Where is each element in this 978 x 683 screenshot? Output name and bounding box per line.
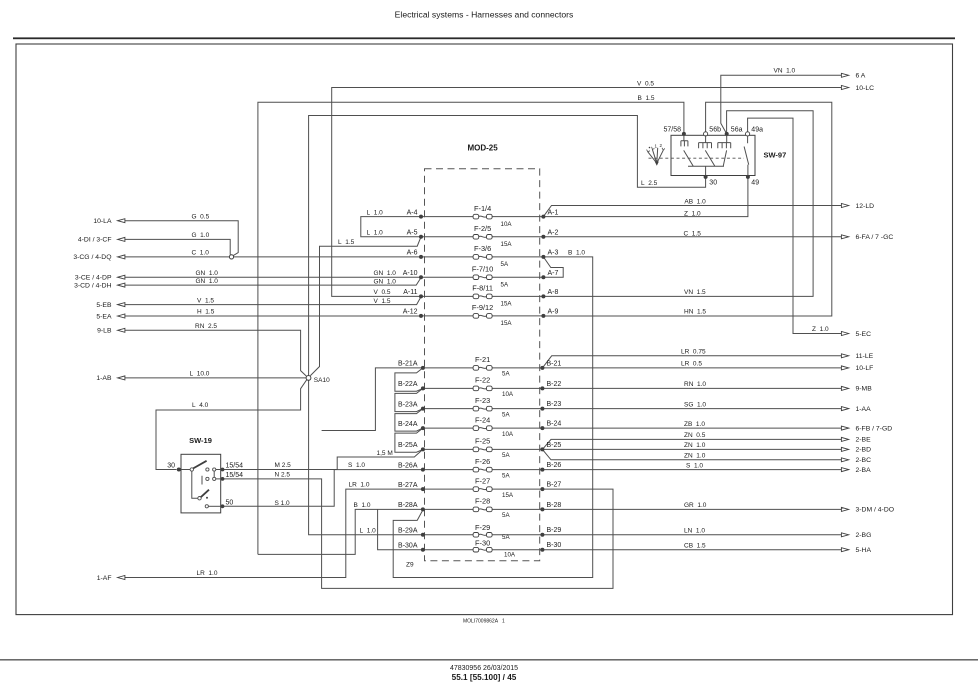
svg-text:B-30A: B-30A — [398, 542, 418, 549]
svg-text:5A: 5A — [502, 472, 510, 479]
wire GN 1.0 (3-CD/4-DH to A-10) — [125, 278, 421, 286]
svg-text:12-LD: 12-LD — [856, 203, 875, 210]
connector 9-LB — [97, 328, 125, 335]
wire row B-21A/B-21 — [423, 367, 543, 369]
node B-26 — [540, 468, 544, 472]
connector 12-LD — [841, 203, 874, 210]
fuse F-2/5 — [473, 224, 512, 248]
svg-text:LR 1.0: LR 1.0 — [349, 481, 370, 488]
node B-26A — [421, 468, 425, 472]
svg-text:56a: 56a — [731, 126, 743, 133]
svg-text:A-2: A-2 — [548, 230, 559, 237]
SW-97 terminal 56a — [725, 126, 743, 136]
svg-text:2-BD: 2-BD — [856, 447, 872, 454]
svg-text:S 1.0: S 1.0 — [348, 462, 365, 469]
svg-text:15A: 15A — [501, 301, 513, 308]
svg-text:SG 1.0: SG 1.0 — [684, 401, 706, 408]
node A-5 — [419, 235, 423, 239]
svg-text:B-23: B-23 — [547, 401, 562, 408]
svg-text:GN 1.0: GN 1.0 — [374, 270, 397, 277]
svg-text:1-AA: 1-AA — [856, 406, 872, 413]
svg-text:1-AB: 1-AB — [96, 375, 112, 382]
footer rule — [0, 659, 978, 660]
wire HN 1.5 (A-9 to SW-97 term 56b) — [543, 102, 831, 316]
connector 3-CG / 4-DQ — [73, 254, 125, 261]
svg-text:LN 1.0: LN 1.0 — [684, 528, 705, 535]
connector 2-BA — [841, 467, 871, 474]
wire row A-5/A-2 — [421, 236, 543, 238]
wire RN 1.0 (B-22 to 9-MB) — [542, 387, 841, 389]
connector 10-LC — [841, 85, 874, 92]
svg-text:6-FA / 7 -GC: 6-FA / 7 -GC — [856, 234, 894, 241]
svg-text:A-3: A-3 — [548, 250, 559, 257]
wire N 2.5 (SW-19 to B-27 bottom run) — [223, 479, 614, 589]
svg-text:A-7: A-7 — [548, 270, 559, 277]
SW-19 terminal 50 — [221, 500, 234, 509]
node B-30 — [540, 548, 544, 552]
svg-text:3-CE / 4-DP: 3-CE / 4-DP — [75, 275, 112, 282]
svg-text:VN 1.0: VN 1.0 — [774, 68, 796, 75]
svg-text:F-9/12: F-9/12 — [472, 303, 493, 312]
svg-text:1-AF: 1-AF — [97, 575, 112, 582]
connector 1-AA — [841, 406, 871, 413]
fuse F-22 — [473, 376, 514, 399]
svg-text:MOLI7009862A: MOLI7009862A — [463, 619, 499, 625]
connector 6 A — [841, 73, 865, 80]
SW-97 terminal 56b — [704, 126, 722, 136]
svg-text:B-30: B-30 — [547, 542, 562, 549]
wire row A-10/A-7 — [421, 276, 543, 278]
fuse F-23 — [473, 396, 510, 419]
svg-text:3-CG / 4-DQ: 3-CG / 4-DQ — [73, 254, 111, 261]
node A-1 — [541, 215, 545, 219]
svg-text:GN 1.0: GN 1.0 — [374, 278, 397, 285]
wire L 1.0 (A-5 loop to A-4) — [361, 217, 421, 237]
svg-text:RN 2.5: RN 2.5 — [195, 323, 217, 330]
svg-text:10A: 10A — [504, 551, 516, 558]
svg-text:L 4.0: L 4.0 — [192, 402, 209, 409]
svg-text:5A: 5A — [502, 534, 510, 541]
svg-text:GN 1.0: GN 1.0 — [196, 278, 219, 285]
fuse F-25 — [473, 437, 510, 460]
fuse F-27 — [473, 476, 514, 499]
svg-text:A-4: A-4 — [407, 209, 418, 216]
wire row B-25A/B-25 — [423, 448, 543, 450]
wire jumper A-3 to A-7 — [543, 257, 563, 277]
svg-text:B-23A: B-23A — [398, 401, 418, 408]
svg-text:B-25A: B-25A — [398, 442, 418, 449]
svg-text:56b: 56b — [709, 126, 721, 133]
wire ZN 1.0 (B-25 to 2-BD) — [542, 448, 841, 450]
svg-text:B-22: B-22 — [547, 381, 562, 388]
fuse F-24 — [473, 415, 514, 438]
svg-text:F-22: F-22 — [475, 376, 490, 385]
SW-19 contacts 15/54 — [202, 468, 223, 485]
fuse F-28 — [473, 497, 510, 520]
wire G 0.5 (10-LA to junction) — [125, 221, 238, 256]
wire bank bracket B-22A/B-23A — [395, 388, 423, 411]
connector 4-DI / 3-CF — [78, 237, 125, 244]
node B-22A — [421, 386, 425, 390]
fuse F-26 — [473, 457, 510, 480]
svg-text:10A: 10A — [502, 391, 514, 398]
svg-text:30: 30 — [709, 180, 717, 187]
svg-text:6 A: 6 A — [856, 73, 866, 80]
node B-28A — [421, 507, 425, 511]
svg-text:B-21: B-21 — [547, 360, 562, 367]
svg-text:A-1: A-1 — [548, 209, 559, 216]
wire row B-22A/B-22 — [423, 387, 543, 389]
SW-97 position indicator — [647, 143, 665, 166]
wire GN 1.0 (3-CE/4-DP to A-10) — [125, 276, 421, 278]
svg-text:L 1.5: L 1.5 — [338, 239, 355, 246]
SW-19 pivot and upper contact arm — [181, 469, 190, 471]
SW-19 terminal 30 — [167, 462, 181, 471]
connector 5-EB — [96, 302, 125, 309]
svg-text:4-DI / 3-CF: 4-DI / 3-CF — [78, 237, 112, 244]
svg-text:F-21: F-21 — [475, 355, 490, 364]
SW-97 terminal 49a — [746, 126, 764, 136]
svg-text:F-3/6: F-3/6 — [474, 244, 491, 253]
junction node G wires — [229, 255, 233, 259]
svg-text:5-EA: 5-EA — [96, 313, 112, 320]
connector 3-CE / 4-DP — [75, 275, 125, 282]
svg-text:15A: 15A — [501, 241, 513, 248]
svg-text:5A: 5A — [502, 371, 510, 378]
SW-97 contact comb 56a — [718, 135, 731, 148]
title rule — [13, 37, 955, 39]
wire L 2.5 (SA10 to SW-97 term 30) — [309, 116, 706, 376]
node B-24A — [421, 426, 425, 430]
svg-text:F-30: F-30 — [475, 539, 490, 548]
splice SA10 — [306, 376, 330, 384]
wire SG 1.0 (B-23 to 1-AA) — [542, 408, 841, 410]
svg-text:B-27A: B-27A — [398, 482, 418, 489]
svg-text:Electrical systems - Harnesses: Electrical systems - Harnesses and conne… — [395, 9, 574, 19]
switch SW-97 body — [671, 135, 755, 175]
node A-8 — [541, 294, 545, 298]
svg-text:3-DM / 4-DO: 3-DM / 4-DO — [856, 507, 895, 514]
svg-text:47830956 26/03/2015: 47830956 26/03/2015 — [450, 665, 518, 672]
wire VN 1.5 (A-8 to SW-97 term 56a) — [543, 111, 813, 297]
svg-text:C 1.0: C 1.0 — [192, 250, 210, 257]
wire N branch (bottom run to B-21A bank) — [322, 368, 422, 431]
svg-text:5-EB: 5-EB — [96, 302, 112, 309]
svg-text:G 0.5: G 0.5 — [192, 213, 210, 220]
svg-text:F-8/11: F-8/11 — [472, 284, 493, 293]
svg-text:V 0.5: V 0.5 — [374, 289, 391, 296]
svg-text:S 1.0: S 1.0 — [686, 462, 703, 469]
svg-text:2-BA: 2-BA — [856, 467, 872, 474]
svg-text:L 10.0: L 10.0 — [190, 371, 210, 378]
svg-text:10A: 10A — [502, 431, 514, 438]
svg-text:HN 1.5: HN 1.5 — [684, 309, 706, 316]
fuse F-9/12 — [472, 303, 512, 327]
wire bank bracket B-23A/B-24A — [395, 409, 423, 432]
svg-text:F-27: F-27 — [475, 476, 490, 485]
node B-25A — [421, 447, 425, 451]
wire LR 1.0 (1-AF to B-27A) — [125, 489, 423, 577]
svg-text:5A: 5A — [502, 452, 510, 459]
fuse F-8/11 — [472, 284, 512, 308]
svg-text:A-6: A-6 — [407, 250, 418, 257]
SW-97 terminal 30 — [704, 175, 718, 187]
connector 10-LF — [841, 365, 873, 372]
module MOD-25 dashed outline — [425, 169, 540, 561]
SW-19 contact 50 — [205, 505, 208, 508]
svg-text:9-MB: 9-MB — [856, 386, 873, 393]
node A-4 — [419, 215, 423, 219]
wire Z 1.0 (A-1 to SW-97 term 49) — [543, 177, 748, 217]
connector 2-BC — [841, 457, 871, 464]
svg-text:B 1.0: B 1.0 — [568, 250, 585, 257]
svg-text:Z 1.0: Z 1.0 — [812, 326, 829, 333]
svg-text:F-1/4: F-1/4 — [474, 204, 491, 213]
svg-text:LR 0.75: LR 0.75 — [681, 349, 706, 356]
svg-text:SA10: SA10 — [314, 377, 330, 384]
wire B 1.0 branch (B-28A to B-30A) — [378, 509, 422, 549]
svg-text:ZN 1.0: ZN 1.0 — [684, 442, 706, 449]
svg-text:F-2/5: F-2/5 — [474, 224, 491, 233]
node B-23A — [421, 407, 425, 411]
svg-text:1,5 M: 1,5 M — [377, 450, 393, 457]
svg-text:C 1.5: C 1.5 — [684, 231, 702, 238]
fuse F-3/6 — [473, 244, 509, 268]
svg-text:B-28: B-28 — [547, 502, 562, 509]
svg-text:ZN 1.0: ZN 1.0 — [684, 453, 706, 460]
SW-97 contact 49 — [744, 136, 749, 175]
node A-10 — [419, 275, 423, 279]
SW-97 contact comb 57/58 — [681, 135, 688, 146]
wire ZN 0.5 (B-25 to 2-BE) — [542, 439, 841, 449]
svg-text:2-BC: 2-BC — [856, 457, 872, 464]
svg-text:57/58: 57/58 — [663, 126, 681, 133]
wire AB 1.0 (A-1 to 12-LD) — [543, 206, 841, 217]
svg-text:L 1.0: L 1.0 — [367, 209, 384, 216]
wire GR 1.0 (B-28 to 3-DM/4-DO) — [542, 508, 841, 510]
svg-text:15/54: 15/54 — [226, 462, 244, 469]
svg-text:B-29A: B-29A — [398, 528, 418, 535]
wire M 2.5 / 1,5 M (SW-19 to B-25A) — [223, 449, 423, 469]
svg-text:VN 1.5: VN 1.5 — [684, 289, 706, 296]
svg-text:10A: 10A — [501, 221, 513, 228]
connector 3-CD / 4-DH — [74, 282, 125, 289]
svg-text:B 1.5: B 1.5 — [638, 95, 655, 102]
switch SW-19 body — [181, 454, 221, 513]
svg-text:N 2.5: N 2.5 — [275, 472, 291, 479]
node A-11 — [419, 294, 423, 298]
svg-text:AB 1.0: AB 1.0 — [684, 198, 706, 205]
svg-text:5A: 5A — [501, 281, 509, 288]
connector 6-FA / 7 -GC — [841, 234, 893, 241]
wire L 10.0 (1-AB to SA10) — [125, 377, 306, 379]
svg-text:B-29: B-29 — [547, 527, 562, 534]
wire L 1.5 (SA10 to A-5) — [310, 237, 421, 376]
SW-97 mechanical link — [649, 157, 745, 159]
node A-7 — [541, 275, 545, 279]
node B-25 — [540, 447, 544, 451]
svg-text:B-28A: B-28A — [398, 502, 418, 509]
svg-text:30: 30 — [167, 462, 175, 469]
wire LR 0.5 (B-21 to 10-LF) — [542, 367, 841, 369]
node B-21 — [540, 366, 544, 370]
wire V 1.5 (5-EB to A-11) — [125, 297, 421, 305]
wire LN 1.0 (B-29 to 2-BG) — [542, 534, 841, 536]
svg-text:B-21A: B-21A — [398, 361, 418, 368]
connector 11-LE — [841, 353, 873, 360]
connector 5-HA — [841, 547, 871, 554]
node A-12 — [419, 314, 423, 318]
svg-text:L 1.0: L 1.0 — [367, 230, 384, 237]
SW-97 wiper arms and common bar — [684, 150, 727, 175]
wire row B-30A/B-30 — [423, 549, 543, 551]
SW-19 terminal 15/54 upper — [221, 462, 244, 471]
svg-text:V 0.5: V 0.5 — [637, 80, 654, 87]
svg-text:F-24: F-24 — [475, 415, 490, 424]
wire bank bracket B-21A/B-22A — [395, 368, 423, 391]
svg-text:F-26: F-26 — [475, 457, 490, 466]
svg-text:5A: 5A — [502, 411, 510, 418]
svg-text:V 1.5: V 1.5 — [374, 298, 391, 305]
svg-text:A-11: A-11 — [403, 289, 417, 296]
svg-text:5A: 5A — [501, 261, 509, 268]
svg-text:GR 1.0: GR 1.0 — [684, 502, 707, 509]
wire C 1.5 (A-2 to 6-FA/7-GC) — [543, 236, 841, 238]
svg-text:11-LE: 11-LE — [856, 353, 874, 360]
svg-text:LR 1.0: LR 1.0 — [197, 570, 218, 577]
wire L 1.0 (SA10 drop to B-29A) — [309, 380, 423, 534]
svg-text:M 2.5: M 2.5 — [275, 462, 292, 469]
svg-text:S 1.0: S 1.0 — [275, 500, 291, 507]
svg-text:6-FB / 7-GD: 6-FB / 7-GD — [856, 425, 893, 432]
SW-97 terminal 49 — [746, 175, 759, 187]
svg-text:55.1 [55.100] / 45: 55.1 [55.100] / 45 — [452, 673, 517, 682]
svg-text:15A: 15A — [501, 320, 513, 327]
svg-text:Z 1.0: Z 1.0 — [684, 210, 701, 217]
connector 6-FB / 7-GD — [841, 425, 892, 432]
svg-text:A-12: A-12 — [403, 309, 418, 316]
svg-text:ZN 0.5: ZN 0.5 — [684, 432, 706, 439]
svg-text:10-LF: 10-LF — [856, 365, 874, 372]
SW-97 terminal 57/58 — [663, 126, 685, 136]
wire S 1.0 (SW-19 term 50 to B-26A) — [223, 470, 423, 507]
fuse F-30 — [473, 539, 516, 559]
svg-text:RN 1.0: RN 1.0 — [684, 381, 706, 388]
svg-text:3-CD / 4-DH: 3-CD / 4-DH — [74, 282, 111, 289]
wire B 1.0 (left drop to B-28A) — [258, 509, 422, 554]
wire V 0.5 (A-11 to 10-LC) — [332, 88, 842, 297]
wire row A-11/A-8 — [421, 295, 543, 297]
svg-text:49: 49 — [751, 180, 759, 187]
wire CB 1.5 (B-30 to 5-HA) — [542, 549, 841, 551]
svg-text:Z9: Z9 — [406, 562, 414, 569]
svg-text:F-23: F-23 — [475, 396, 490, 405]
wire Z 1.0 (49a to 5-EC) — [748, 118, 842, 333]
wire row B-29A/B-29 — [423, 534, 543, 536]
SW-19 terminal 15/54 lower — [221, 472, 244, 481]
wire row B-27A/B-27 — [423, 488, 543, 490]
connector 10-LA — [93, 218, 125, 225]
svg-text:5-EC: 5-EC — [856, 331, 872, 338]
svg-text:9-LB: 9-LB — [97, 328, 112, 335]
svg-text:10-LA: 10-LA — [93, 218, 112, 225]
connector 5-EC — [841, 331, 871, 338]
node B-30A — [421, 548, 425, 552]
wire row A-6/A-3 — [421, 256, 543, 258]
svg-text:B-24A: B-24A — [398, 421, 418, 428]
node B-27 — [540, 487, 544, 491]
svg-text:B-22A: B-22A — [398, 381, 418, 388]
svg-text:SW-19: SW-19 — [189, 436, 212, 445]
node B-27A — [421, 487, 425, 491]
wire VN 1.0 (56a to 6-A) — [721, 75, 842, 134]
node A-2 — [541, 235, 545, 239]
wire H 1.5 (5-EA to A-12) — [125, 315, 421, 317]
svg-text:B-25: B-25 — [547, 442, 562, 449]
svg-text:F-7/10: F-7/10 — [472, 264, 493, 273]
svg-text:F-29: F-29 — [475, 523, 490, 532]
svg-text:B-27: B-27 — [547, 482, 562, 489]
connector 9-MB — [841, 386, 872, 393]
node B-23 — [540, 407, 544, 411]
svg-text:L 2.5: L 2.5 — [641, 180, 658, 187]
connector 5-EA — [96, 313, 125, 320]
fuse F-21 — [473, 355, 510, 378]
svg-text:A-5: A-5 — [407, 230, 418, 237]
wire ZN 1.0 (B-25 to 2-BC) — [542, 449, 841, 459]
wire row B-28A/B-28 — [423, 508, 543, 510]
svg-text:B 1.0: B 1.0 — [354, 502, 371, 509]
svg-text:SW-97: SW-97 — [764, 151, 787, 160]
node A-3 — [541, 255, 545, 259]
svg-text:A-9: A-9 — [548, 309, 559, 316]
svg-text:1: 1 — [502, 619, 505, 625]
node B-22 — [540, 386, 544, 390]
svg-text:15A: 15A — [502, 492, 514, 499]
svg-text:2-BG: 2-BG — [856, 532, 872, 539]
node B-28 — [540, 507, 544, 511]
wire B 1.0 (A-3 to B-28A loop) — [393, 257, 593, 578]
connector 2-BG — [841, 532, 871, 539]
svg-text:L 1.0: L 1.0 — [360, 527, 377, 534]
svg-text:10-LC: 10-LC — [856, 85, 875, 92]
svg-text:H 1.5: H 1.5 — [197, 309, 215, 316]
wire S 1.0 (B-26 to 2-BA) — [542, 469, 841, 471]
wire C 1.0 (3-CG/4-DQ to A-6) — [125, 256, 421, 258]
node B-29 — [540, 533, 544, 537]
node B-21A — [421, 366, 425, 370]
svg-text:A-10: A-10 — [403, 270, 418, 277]
svg-text:CB 1.5: CB 1.5 — [684, 543, 706, 550]
svg-text:5-HA: 5-HA — [856, 547, 872, 554]
SW-97 contact comb 56b — [699, 135, 712, 148]
wire bank bracket B-24A/B-25A — [395, 428, 423, 452]
wire RN 2.5 (9-LB to SA10) — [125, 330, 307, 376]
wire row B-24A/B-24 — [423, 427, 543, 429]
wire G 1.0 (4-DI/3-CF to junction) — [125, 239, 230, 254]
wire row B-26A/B-26 — [423, 469, 543, 471]
fuse F-7/10 — [472, 264, 509, 288]
svg-text:50: 50 — [226, 500, 234, 507]
node A-9 — [541, 314, 545, 318]
connector 3-DM / 4-DO — [841, 507, 894, 514]
connector 1-AB — [96, 375, 125, 382]
svg-text:ZB 1.0: ZB 1.0 — [684, 421, 705, 428]
svg-text:V 1.5: V 1.5 — [197, 297, 214, 304]
connector 2-BD — [841, 447, 871, 454]
fuse F-29 — [473, 523, 510, 541]
wire L 4.0 (SA10 to SW-19 term 30) — [156, 380, 307, 470]
